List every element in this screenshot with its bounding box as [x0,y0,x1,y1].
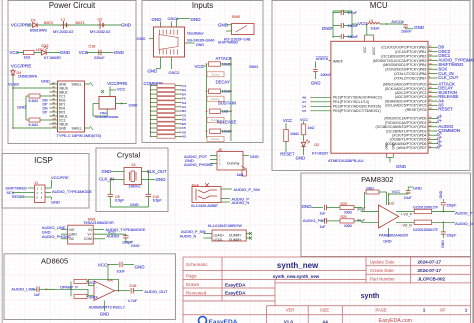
svg-text:DUMMY: DUMMY [229,238,242,242]
svg-text:GND: GND [396,164,407,169]
svg-text:- VO_N: - VO_N [401,223,413,227]
svg-text:XC6206P332MR: XC6206P332MR [95,115,119,119]
svg-text:100nF: 100nF [348,35,359,39]
svg-text:(XTAL2/TOSC2)PB7: (XTAL2/TOSC2)PB7 [394,76,426,80]
svg-text:CLK_IN: CLK_IN [99,177,114,182]
svg-text:100Ω: 100Ω [344,224,352,228]
svg-text:1kΩ: 1kΩ [222,110,229,114]
svg-text:VCC: VCC [363,46,367,53]
svg-text:VCC/PRE: VCC/PRE [51,175,69,180]
svg-text:EasyEDA: EasyEDA [209,319,238,323]
svg-text:2024-07-17: 2024-07-17 [418,268,442,273]
svg-text:Dummy: Dummy [212,139,221,141]
svg-text:SHIFT/MISO: SHIFT/MISO [5,186,27,190]
svg-text:10kΩ: 10kΩ [366,187,374,191]
svg-text:DUMMY: DUMMY [229,233,242,237]
svg-text:AUDIO_POT: AUDIO_POT [303,218,327,223]
svg-text:PE1(PTCKY/SCL1/T4): PE1(PTCKY/SCL1/T4) [333,100,369,104]
svg-text:GND: GND [383,239,392,243]
svg-text:KLJ-01304T-08R07W: KLJ-01304T-08R07W [208,224,242,228]
svg-text:GND: GND [17,105,26,110]
svg-text:LEAD+: LEAD+ [214,233,225,237]
svg-text:SUSTAIN: SUSTAIN [218,101,236,106]
svg-text:220pF: 220pF [447,204,457,208]
svg-text:A4: A4 [53,94,55,97]
svg-text:AUDIO_P_SW: AUDIO_P_SW [234,187,260,192]
svg-text:(MOSI0/TXD1/OC2A/PTCKY)PB3: (MOSI0/TXD1/OC2A/PTCKY)PB3 [373,59,427,63]
svg-text:GND: GND [152,17,163,22]
svg-text:JLCPCB-002: JLCPCB-002 [418,276,446,281]
svg-text:PE2(PTCKY/ADC6/ICP3/XS5): PE2(PTCKY/ADC6/ICP3/XS5) [333,105,381,109]
svg-text:AUDIO_PHONE: AUDIO_PHONE [184,162,213,167]
svg-text:VCC: VCC [194,64,204,69]
svg-text:A7: A7 [53,106,55,109]
svg-text:GND: GND [414,25,425,30]
svg-text:synth_new: synth_new [277,261,319,270]
svg-text:U3: U3 [389,202,394,206]
svg-text:GND: GND [322,26,333,31]
svg-text:C5: C5 [302,109,306,113]
svg-text:RESET: RESET [280,152,295,157]
svg-text:AUDIO_P: AUDIO_P [455,210,473,215]
svg-text:D1: D1 [31,19,36,23]
svg-text:CLK_OUT: CLK_OUT [147,169,167,174]
svg-text:ATMEGA328PB-AU: ATMEGA328PB-AU [328,158,364,163]
svg-text:(MISO0/RXD1/PTCKY)PB4: (MISO0/RXD1/PTCKY)PB4 [383,63,426,67]
svg-text:IN_P: IN_P [358,218,366,222]
svg-text:C18: C18 [130,284,137,288]
svg-text:ICSP: ICSP [34,156,53,165]
svg-text:Reviewed: Reviewed [186,290,207,295]
svg-text:Drawn: Drawn [186,282,200,287]
svg-text:VCC/PRE: VCC/PRE [107,81,128,86]
svg-text:A9: A9 [53,114,55,117]
svg-text:VCC/PRE: VCC/PRE [11,64,32,69]
svg-text:GND: GND [60,50,71,55]
svg-text:MCU: MCU [370,1,388,10]
svg-text:VER: VER [286,308,295,313]
svg-text:GND: GND [302,204,313,209]
svg-text:GND: GND [296,155,305,160]
svg-text:CLK_OUT: CLK_OUT [438,75,459,80]
svg-text:GZ2012D601TF: GZ2012D601TF [413,228,438,232]
svg-text:A5: A5 [53,98,55,101]
svg-text:LEAD-: LEAD- [214,238,224,242]
svg-text:10kΩ: 10kΩ [222,130,231,134]
svg-text:220pF: 220pF [447,234,457,238]
svg-text:VCC: VCC [79,50,89,55]
svg-text:GND: GND [129,103,138,108]
svg-text:A2: A2 [53,86,55,89]
svg-text:250Ω: 250Ω [249,65,258,69]
svg-text:DECAY: DECAY [216,79,230,84]
svg-text:KT-0603Y: KT-0603Y [312,152,329,156]
svg-text:KLJ-0420-A08BT: KLJ-0420-A08BT [191,204,219,208]
svg-text:1kΩ: 1kΩ [24,56,31,60]
svg-text:100Ω: 100Ω [344,211,352,215]
svg-text:A8: A8 [53,110,55,113]
svg-text:AUDIO_N: AUDIO_N [180,234,197,238]
svg-text:AUDIO_LINE: AUDIO_LINE [11,286,35,291]
svg-text:SHELL: SHELL [72,126,83,130]
svg-text:AUDIO: AUDIO [107,234,120,239]
svg-text:OF: OF [440,308,446,313]
svg-text:GND: GND [89,296,98,300]
svg-text:5.1kΩ: 5.1kΩ [29,123,39,127]
svg-text:PE2(PTCKY/SDA1/IOP4/ACO): PE2(PTCKY/SDA1/IOP4/ACO) [333,96,382,100]
svg-text:BAT1: BAT1 [76,21,85,25]
svg-text:GND: GND [41,79,50,84]
svg-text:C16: C16 [89,44,96,48]
svg-text:A5: A5 [182,135,186,139]
svg-text:Schematic: Schematic [186,262,209,267]
svg-text:GND: GND [311,81,320,86]
svg-text:V1.0: V1.0 [284,319,294,323]
svg-text:6.5pF: 6.5pF [115,199,124,203]
svg-text:VCC: VCC [117,86,126,91]
svg-text:VCC: VCC [98,263,108,268]
svg-text:AD8605ART2-REEL7: AD8605ART2-REEL7 [89,306,125,310]
svg-text:D2: D2 [314,143,319,147]
svg-text:(XCK0/SCK0/PTCKY)PB5: (XCK0/SCK0/PTCKY)PB5 [385,68,426,72]
svg-text:A6: A6 [302,95,306,99]
svg-text:(XTAL1/TOSC1)PB6: (XTAL1/TOSC1)PB6 [394,72,426,76]
svg-text:Create Date: Create Date [370,268,394,273]
svg-text:Page: Page [186,273,197,278]
svg-text:GND: GND [147,68,158,73]
svg-text:PAM8302AABCR: PAM8302AABCR [379,234,408,238]
svg-text:AUDIO_PHONE: AUDIO_PHONE [42,234,71,239]
svg-text:GND: GND [250,154,259,159]
svg-text:AREF: AREF [333,59,344,63]
svg-text:L3: L3 [369,19,373,23]
svg-text:A6: A6 [53,102,55,105]
svg-text:EasyEDA: EasyEDA [225,282,246,287]
svg-text:10kΩ: 10kΩ [290,132,299,136]
svg-text:GND: GND [130,202,139,207]
svg-text:PAGE: PAGE [376,308,388,313]
svg-text:SIZE: SIZE [320,308,330,313]
svg-text:SW8: SW8 [232,15,240,19]
svg-text:Oscillator: Oscillator [187,30,204,35]
svg-text:1kΩ: 1kΩ [308,126,315,130]
svg-text:B5819WS: B5819WS [30,29,47,33]
svg-text:AD8605: AD8605 [41,256,68,265]
svg-text:SHIFT/MISO: SHIFT/MISO [218,41,238,45]
svg-text:BAT2: BAT2 [44,21,53,25]
svg-text:V+: V+ [88,233,92,237]
svg-text:Dummy: Dummy [227,161,240,165]
svg-text:ATTACK: ATTACK [216,56,232,61]
svg-text:A7: A7 [302,100,306,104]
svg-text:4.7uF: 4.7uF [348,11,358,15]
svg-text:VUSB: VUSB [8,82,19,87]
svg-text:GND: GND [441,240,445,248]
svg-text:AUDIO_OUT: AUDIO_OUT [144,289,168,294]
svg-text:PAM8302: PAM8302 [361,175,393,184]
svg-text:A12: A12 [53,126,56,129]
svg-text:1N5819WS: 1N5819WS [18,75,38,79]
svg-text:DP: DP [43,110,49,114]
svg-text:10uF: 10uF [116,269,125,273]
svg-text:GND: GND [100,312,109,317]
svg-text:(OC1A/PTCKY)PB1: (OC1A/PTCKY)PB1 [395,50,427,54]
svg-text:GND: GND [121,22,132,27]
svg-text:GND: GND [156,177,167,182]
svg-text:1kΩ: 1kΩ [237,173,244,177]
svg-text:AREF#: AREF# [316,57,329,61]
svg-text:5.1kΩ: 5.1kΩ [29,99,39,103]
svg-text:A10: A10 [53,118,56,121]
svg-text:GND: GND [101,169,112,174]
svg-text:RESET: RESET [438,107,453,112]
svg-text:PE0(PTCKY/ADC7/T3/MOS1): PE0(PTCKY/ADC7/T3/MOS1) [333,109,381,113]
svg-text:COM: COM [84,237,92,241]
svg-text:Part Number: Part Number [370,276,395,281]
svg-text:10kΩ: 10kΩ [222,90,231,94]
svg-text:-: - [96,285,97,289]
svg-text:GND: GND [135,265,146,270]
svg-text:VCC: VCC [300,118,308,122]
svg-text:EasyEDA: EasyEDA [225,291,246,296]
svg-text:1uF: 1uF [320,211,326,215]
svg-text:220uF: 220uF [94,56,105,60]
svg-text:AVCC: AVCC [372,46,376,55]
svg-text:GND: GND [191,17,202,22]
svg-text:GND: GND [114,50,125,55]
svg-text:MY-2032-02: MY-2032-02 [53,30,73,34]
svg-text:Crystal: Crystal [117,150,141,159]
svg-text:Dummy: Dummy [212,75,221,77]
svg-text:GND: GND [131,243,140,248]
svg-text:KT-0603R: KT-0603R [44,56,61,60]
svg-text:Power Circuit: Power Circuit [49,1,96,10]
svg-text:synth: synth [361,293,380,300]
svg-text:COMMON: COMMON [438,128,460,133]
svg-text:OSC1: OSC1 [168,16,180,21]
svg-text:RELEASE: RELEASE [217,120,237,125]
svg-text:AVCC#: AVCC# [391,20,404,24]
svg-text:EasyEDA.com: EasyEDA.com [379,318,412,323]
svg-text:10kΩ: 10kΩ [222,62,231,66]
svg-text:VCC: VCC [89,281,97,285]
svg-text:GND: GND [137,36,146,41]
svg-text:10uH: 10uH [370,27,379,31]
svg-text:C4: C4 [302,104,306,108]
svg-text:(OC1B/SS/OP1/PTCKY)PB2: (OC1B/SS/OP1/PTCKY)PB2 [381,54,426,58]
svg-text:T5SA2159ADEVR: T5SA2159ADEVR [83,221,114,225]
svg-text:A1: A1 [53,82,55,85]
svg-text:TYPE-C 16PIN 2MD(073): TYPE-C 16PIN 2MD(073) [57,133,102,138]
svg-text:VCC: VCC [283,118,293,123]
svg-text:AUDIO_TYPE&MODE: AUDIO_TYPE&MODE [52,189,92,194]
svg-text:OSC2: OSC2 [169,70,181,75]
svg-text:2024-07-17: 2024-07-17 [418,259,442,264]
svg-text:IN: IN [88,228,92,232]
svg-text:VCC: VCC [392,189,401,194]
svg-text:AUDIO_N: AUDIO_N [232,200,250,205]
svg-text:6.5pF: 6.5pF [153,199,162,203]
svg-text:1uF: 1uF [34,293,41,297]
svg-text:NO: NO [69,228,74,232]
svg-text:GND: GND [51,200,60,205]
svg-text:OPAMP_P: OPAMP_P [60,285,78,289]
svg-text:100nF: 100nF [320,73,331,77]
svg-text:MY-2032-02: MY-2032-02 [90,30,110,34]
svg-text:AUDIO_N: AUDIO_N [455,221,473,226]
svg-text:Update Date: Update Date [370,259,395,264]
svg-text:synth_new.synth_new: synth_new.synth_new [273,274,320,279]
svg-text:U4: U4 [108,278,113,282]
svg-text:X1: X1 [131,163,136,167]
svg-text:16MHz: 16MHz [129,185,141,189]
svg-text:A11: A11 [53,122,56,125]
svg-text:(AIN1/PTCKY)PD7: (AIN1/PTCKY)PD7 [397,146,427,150]
svg-text:10uF: 10uF [404,196,412,200]
svg-text:J1: J1 [35,181,39,185]
svg-text:AUDIO_P_SW: AUDIO_P_SW [181,230,206,234]
svg-text:+ VO_P: + VO_P [401,213,413,217]
svg-text:Inputs: Inputs [192,1,213,10]
svg-text:(RESET)PC6: (RESET)PC6 [405,108,426,112]
svg-text:L1: L1 [61,17,65,21]
svg-text:GND: GND [59,126,67,130]
svg-text:A4: A4 [322,319,328,323]
svg-text:SHELL: SHELL [72,82,83,86]
svg-text:GND: GND [196,43,205,47]
svg-text:1uF: 1uF [320,225,326,229]
svg-text:U2: U2 [98,17,103,21]
svg-text:4.7uF: 4.7uF [128,299,138,303]
svg-text:A3: A3 [53,90,55,93]
svg-text:GND: GND [413,186,422,191]
svg-text:100nF: 100nF [401,30,412,34]
svg-text:GND: GND [439,190,443,198]
